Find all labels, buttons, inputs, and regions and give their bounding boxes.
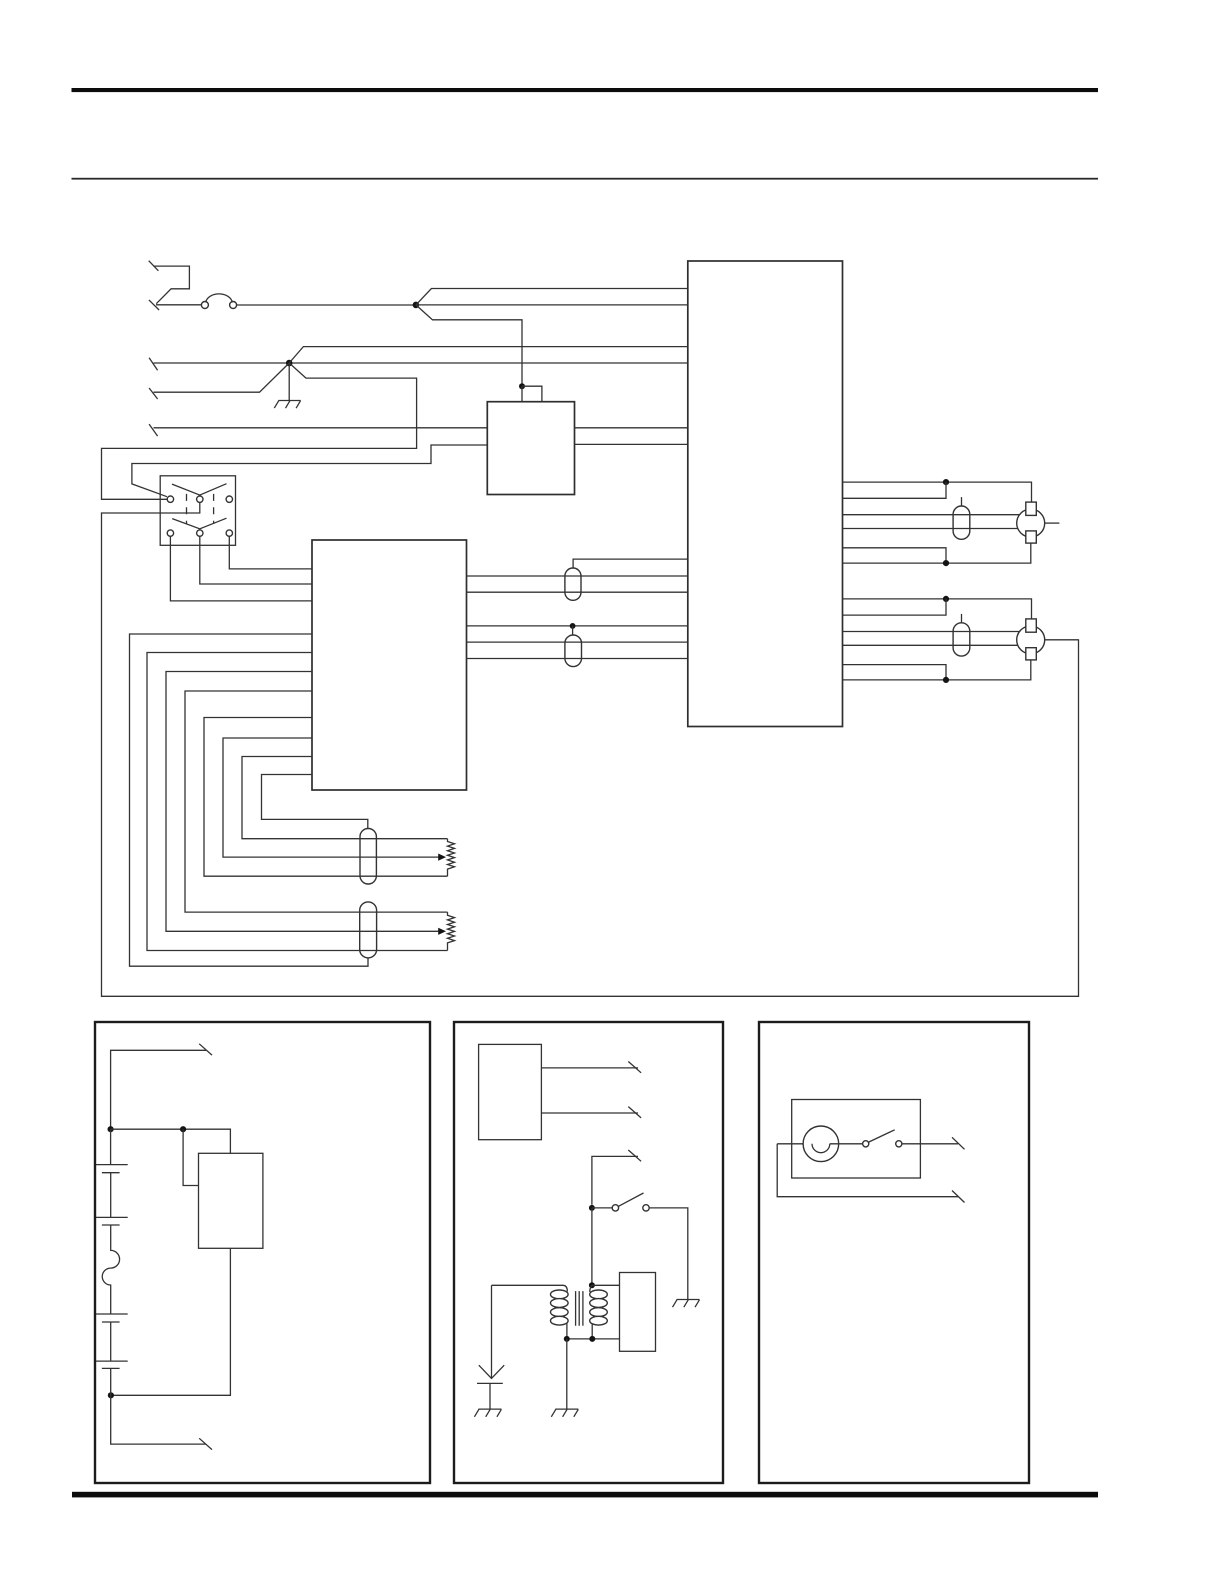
- wire J14 to transformer: [591, 1208, 593, 1285]
- wire A2 to A1 no.4: [467, 641, 688, 643]
- wire lamp to switch S3: [830, 1143, 863, 1145]
- motor M1 supply wire A: [843, 482, 1032, 502]
- node J2: [286, 360, 293, 367]
- wire regulator bottom to node J13: [111, 1248, 230, 1395]
- pot VR1 resistor element: [448, 839, 455, 877]
- figure box 2: [454, 1022, 723, 1483]
- wire J2 upper branch to A1: [289, 347, 688, 363]
- transformer T1 secondary bottom lead: [591, 1324, 593, 1339]
- wire S1 pin2 to left rail to motor M2 loop: [102, 502, 1079, 996]
- motor M2 node J9: [943, 596, 949, 602]
- motor M1 right stub: [1045, 522, 1060, 524]
- switch S1 upper contact arms: [172, 484, 227, 495]
- ground G4: [474, 1409, 501, 1417]
- wire switch feed: [592, 1156, 638, 1204]
- motor M1: [1017, 502, 1045, 543]
- capacitor C1 branch: [491, 1285, 493, 1377]
- wire battery to bottom lead: [111, 1368, 206, 1444]
- wire A2 loop 2 to pot VR2 bottom: [147, 653, 448, 951]
- tick wire 5: [149, 424, 158, 436]
- battery BT1 cell 3: [96, 1314, 128, 1322]
- figure box 3: [759, 1022, 1029, 1483]
- wire A2 to A1 no.1: [467, 575, 688, 577]
- connector J3b stub: [961, 614, 963, 623]
- capacitor C1: [477, 1365, 504, 1409]
- sensor B1 box: [487, 402, 574, 495]
- tick wire top: [199, 1044, 212, 1055]
- transformer T1 primary bottom lead: [566, 1324, 568, 1339]
- wire J1 lower branch to node J3: [416, 305, 522, 386]
- node J16: [564, 1336, 570, 1342]
- wire connector J2a stub to A1: [573, 559, 688, 568]
- transformer T1 secondary top lead: [590, 1285, 592, 1292]
- lamp unit box: [792, 1100, 921, 1179]
- tick switch feed: [628, 1150, 641, 1161]
- motor M1 wire D: [843, 528, 1019, 530]
- wire J3 step into sensor B1: [522, 386, 542, 402]
- node J1: [413, 302, 420, 309]
- wire A2 loop 1 to connector J5 stub: [130, 634, 369, 966]
- motor M1 wire C: [843, 514, 1020, 516]
- tick wire 3: [149, 358, 158, 370]
- ground G2: [673, 1300, 700, 1308]
- wire tick3 through node J2 to A1: [154, 362, 688, 364]
- motor M2 wire D: [843, 644, 1019, 646]
- transformer T1 secondary winding: [590, 1290, 608, 1325]
- wire J12 to regulator left: [183, 1129, 198, 1185]
- wire B1 to A1 lower: [575, 443, 688, 445]
- battery BT1 cell 4: [96, 1322, 128, 1368]
- transformer T1 core: [576, 1291, 583, 1326]
- module U2 box: [479, 1044, 542, 1139]
- tick out 1: [628, 1062, 641, 1073]
- wire U2 out 2: [541, 1112, 638, 1114]
- wire A2 loop 5 to pot VR1 bottom: [204, 718, 448, 877]
- wire J1 upper branch to control unit A1: [416, 289, 688, 305]
- node J15: [589, 1282, 595, 1288]
- connector J3a stub: [961, 497, 963, 506]
- wire left feed: [777, 1143, 812, 1145]
- wire return loop: [777, 1144, 958, 1197]
- wire fuse to node J1: [237, 304, 413, 306]
- motor M2 wire E: [843, 665, 947, 680]
- node J13: [108, 1392, 114, 1398]
- connector J3b: [953, 623, 970, 656]
- fuse F1: [201, 294, 236, 309]
- motor M1 wire B: [843, 482, 947, 498]
- motor M1 wire E: [843, 548, 947, 563]
- connector J2b: [565, 635, 582, 667]
- connector P1 body: [154, 266, 190, 304]
- switch S1 lower contact arms: [172, 518, 226, 529]
- node J14: [589, 1205, 595, 1211]
- wire A2 loop 6 to pot VR1 wiper: [223, 738, 440, 857]
- connector J3a: [953, 506, 970, 539]
- wire P1 to fuse: [156, 304, 201, 306]
- wire U2 out 1: [541, 1067, 638, 1069]
- motor M2 wire F: [843, 660, 1031, 680]
- regulator U1 box: [199, 1153, 263, 1248]
- control unit A1 box: [688, 261, 843, 727]
- wire S1 pin4 to unit A2: [170, 536, 312, 601]
- wire A2 loop 3 to pot VR2 wiper: [166, 672, 440, 932]
- wire J16 to ground: [566, 1339, 568, 1409]
- wire A2 loop 8 to connector J4 stub: [262, 775, 368, 829]
- motor M1 wire F: [843, 543, 1031, 563]
- wire J1 straight to A1: [416, 304, 688, 306]
- figure box 1: [95, 1022, 430, 1483]
- switch S1 box: [160, 476, 235, 546]
- node J3: [519, 383, 525, 389]
- unit A2 box: [312, 540, 467, 790]
- node J11: [108, 1126, 114, 1132]
- wire B1 to switch S1 pin 1: [132, 445, 487, 497]
- transformer T1 primary lead: [492, 1285, 568, 1291]
- tick wire 4: [149, 388, 158, 399]
- wire tick5 to sensor B1: [154, 427, 488, 429]
- lamp DS1: [803, 1126, 839, 1162]
- wire A2 to A1 no.2: [467, 591, 688, 593]
- battery BT1 cell 2: [96, 1173, 128, 1225]
- motor M2 right stub: [1045, 639, 1079, 641]
- switch S3: [863, 1130, 902, 1147]
- wire J15 to driver U3: [592, 1284, 620, 1286]
- motor M2: [1017, 619, 1045, 660]
- driver U3 box: [620, 1273, 656, 1352]
- wire J2 to switch S1 pin 1: [102, 363, 417, 499]
- wire J11 to regulator top: [111, 1129, 231, 1153]
- pot VR2 resistor element: [448, 912, 455, 950]
- connector P1 prong 1 tick: [149, 261, 159, 271]
- transformer T1 primary winding: [551, 1290, 569, 1325]
- wire top lead: [111, 1050, 206, 1129]
- connector J5: [360, 902, 377, 958]
- motor M2 node J10: [943, 677, 949, 683]
- tick wire bottom: [199, 1438, 212, 1449]
- ground G1: [274, 363, 300, 408]
- inductor L1: [102, 1225, 119, 1314]
- ground G3: [551, 1409, 578, 1417]
- wire A2 loop 7 to pot VR1 top: [242, 757, 448, 839]
- wire S1 pin6 to unit A2: [229, 536, 312, 569]
- motor M1 node J8: [943, 560, 949, 566]
- switch S2: [592, 1193, 649, 1211]
- connector P1 prong 2 tick: [149, 300, 159, 310]
- wire B1 to A1 upper: [575, 427, 688, 429]
- tick out 2: [628, 1107, 641, 1118]
- motor M2 supply wire A: [843, 599, 1032, 619]
- top thin rule: [72, 178, 1099, 180]
- connector J2b stub: [572, 626, 574, 635]
- pot VR1 wiper arrowhead: [438, 854, 446, 861]
- battery BT1 cell 1: [96, 1129, 128, 1173]
- connector J4: [360, 829, 376, 885]
- wire S1 pin5 to unit A2: [200, 536, 312, 584]
- wire bottom bus to driver U3: [567, 1338, 620, 1340]
- wire J3 into sensor B1: [521, 386, 523, 402]
- tick S3 out: [952, 1137, 965, 1149]
- wire A2 to A1 no.5: [467, 658, 688, 660]
- motor M2 wire B: [843, 599, 947, 615]
- wire A2 to A1 no.3 with tap: [467, 625, 688, 627]
- top thick rule: [72, 88, 1099, 92]
- motor M1 node J7: [943, 479, 949, 485]
- motor M2 wire C: [843, 631, 1020, 633]
- connector J2a: [565, 568, 581, 600]
- tick return: [952, 1191, 965, 1203]
- wire A2 loop 4 to pot VR2 top: [185, 691, 448, 912]
- wire S3 out: [902, 1143, 958, 1145]
- node J12: [180, 1126, 186, 1132]
- bottom thick rule: [72, 1492, 1098, 1498]
- node J17: [589, 1336, 595, 1342]
- wire J2 lower-left branch: [154, 363, 290, 392]
- wire S2 to ground: [649, 1208, 688, 1300]
- switch S1 link dashes: [187, 494, 214, 524]
- pot VR2 wiper arrowhead: [438, 928, 446, 935]
- node J6: [570, 623, 576, 629]
- switch S1 pins: [167, 496, 232, 536]
